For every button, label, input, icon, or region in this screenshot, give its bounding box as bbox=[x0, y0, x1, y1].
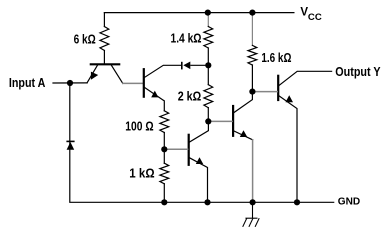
transistor Q4 emitter arrow bbox=[240, 130, 248, 137]
wire R5 to GND bbox=[163, 184, 165, 203]
wire VCC to R6 bbox=[251, 13, 253, 46]
junction Q4 emitter/GND dot bbox=[250, 199, 256, 205]
diode D1 input clamp triangle bbox=[67, 142, 75, 150]
junction Input A / D1 dot bbox=[67, 80, 73, 86]
transistor Q5 base wire bbox=[252, 91, 277, 93]
junction R5/GND dot bbox=[161, 199, 167, 205]
wire R3 to node N2 bbox=[207, 108, 209, 122]
wire VCC to R2 bbox=[207, 13, 209, 27]
svg-text:2 kΩ: 2 kΩ bbox=[178, 89, 202, 104]
resistor R6 1.6 kOhm bbox=[248, 45, 257, 65]
wire node N3 to R5 bbox=[163, 149, 165, 163]
transistor Q3 bar bbox=[188, 135, 190, 165]
diode D2 cathode bar bbox=[181, 62, 183, 70]
transistor Q1 emitter arrow bbox=[91, 72, 98, 80]
transistor Q2 emitter arrow bbox=[151, 91, 158, 98]
resistor R1 6 kOhm bbox=[100, 27, 109, 51]
ground symbol bbox=[243, 202, 260, 227]
svg-text:Input A: Input A bbox=[9, 76, 46, 90]
transistor Q1 collector wire bbox=[111, 64, 123, 83]
transistor Q2 bar bbox=[143, 69, 145, 97]
svg-text:1 kΩ: 1 kΩ bbox=[129, 165, 154, 180]
transistor Q3 emitter wire bbox=[189, 158, 207, 203]
wire VCC to R1 bbox=[103, 13, 105, 27]
junction VCC/R6 dot bbox=[249, 10, 255, 16]
transistor Q5 collector wire / output bbox=[279, 71, 331, 85]
node N1 junction dot bbox=[205, 62, 211, 68]
svg-text:1.6 kΩ: 1.6 kΩ bbox=[261, 50, 291, 65]
transistor Q4 collector wire bbox=[234, 92, 252, 113]
svg-text:6 kΩ: 6 kΩ bbox=[74, 31, 96, 46]
transistor Q4 base wire bbox=[208, 120, 232, 122]
svg-text:GND: GND bbox=[338, 195, 361, 207]
node N3 junction dot bbox=[161, 146, 167, 152]
junction Q3 emitter/GND dot bbox=[204, 199, 210, 205]
svg-text:100 Ω: 100 Ω bbox=[125, 118, 153, 133]
wire R1 to Q1 base bbox=[103, 51, 105, 64]
transistor Q2 collector wire bbox=[145, 65, 181, 77]
transistor Q5 bar bbox=[277, 76, 279, 100]
transistor Q3 base wire bbox=[164, 148, 187, 150]
junction Q5 emitter/GND dot bbox=[294, 199, 300, 205]
transistor Q1 emitter wire bbox=[87, 64, 98, 83]
transistor Q4 emitter wire bbox=[234, 131, 253, 140]
resistor R5 1 kOhm bbox=[160, 163, 169, 184]
transistor Q5 emitter wire bbox=[279, 96, 297, 202]
resistor R2 1.4 kOhm bbox=[204, 27, 213, 48]
diode D2 triangle bbox=[183, 62, 190, 70]
wire R4 to node N3 bbox=[163, 133, 165, 150]
resistor R3 2 kOhm bbox=[204, 85, 213, 108]
transistor Q3 collector wire bbox=[189, 121, 208, 142]
resistor R4 100 Ohm bbox=[160, 111, 169, 133]
diode D1 cathode bar bbox=[66, 140, 74, 142]
transistor Q5 emitter arrow bbox=[286, 95, 294, 102]
wire node N1 to R3 bbox=[207, 65, 209, 84]
GND rail wire bbox=[70, 83, 334, 202]
svg-text:Output Y: Output Y bbox=[335, 64, 381, 79]
VCC rail wire bbox=[104, 12, 294, 14]
transistor Q3 emitter arrow bbox=[196, 157, 203, 164]
svg-text:CC: CC bbox=[308, 12, 322, 23]
node N4 junction dot bbox=[249, 89, 255, 95]
svg-text:1.4 kΩ: 1.4 kΩ bbox=[171, 31, 202, 46]
wire Input A to Q1 emitter bbox=[53, 82, 87, 84]
transistor Q4 bar bbox=[232, 106, 234, 136]
wire R2 to node N1 bbox=[207, 48, 209, 65]
transistor Q2 emitter wire bbox=[145, 88, 165, 111]
transistor Q1 base bar bbox=[91, 63, 119, 65]
node N2 junction dot bbox=[205, 118, 211, 124]
wire R6 to node N4 bbox=[251, 65, 253, 92]
junction VCC/R2 dot bbox=[205, 10, 211, 16]
wire Q1 collector to Q2 base bbox=[123, 82, 143, 84]
wire Q4 emitter to GND bbox=[252, 140, 254, 203]
wire diode D2 to node N1 bbox=[191, 64, 208, 66]
